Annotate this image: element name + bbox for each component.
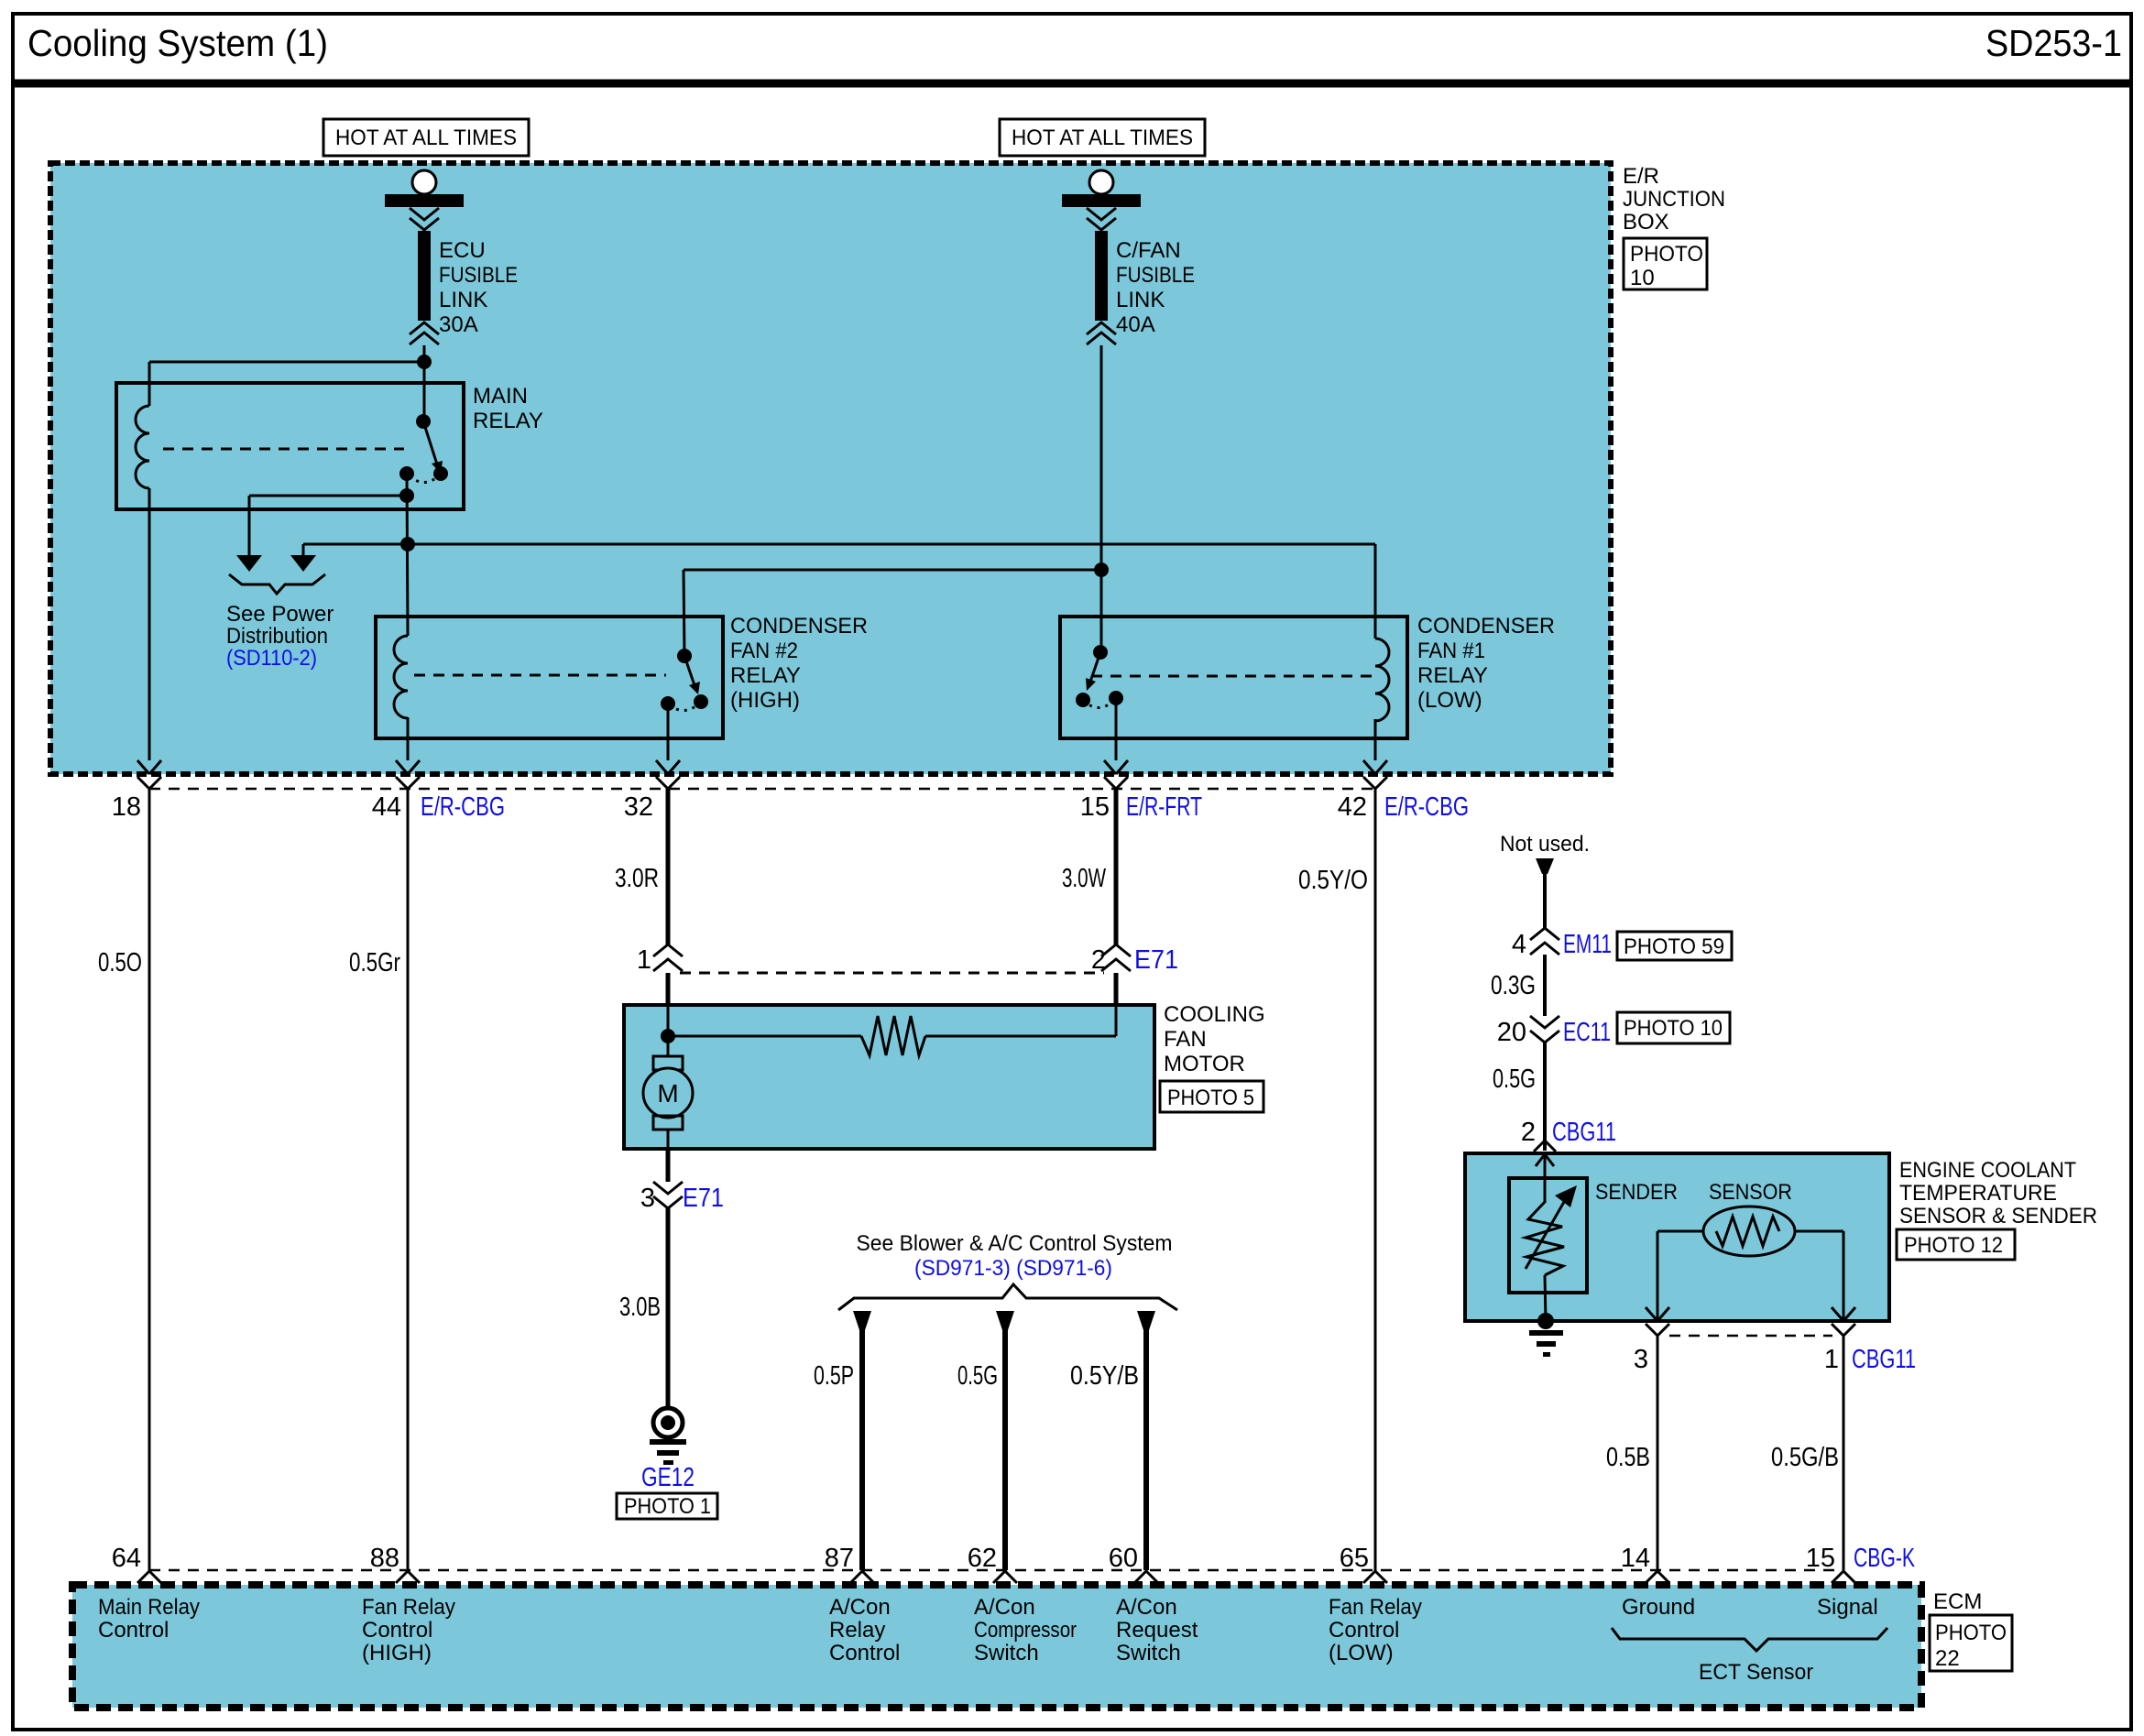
svg-text:60: 60	[1109, 1544, 1138, 1573]
svg-text:ECU: ECU	[439, 238, 486, 263]
svg-text:1: 1	[1824, 1345, 1839, 1374]
svg-text:CBG11: CBG11	[1852, 1345, 1916, 1374]
svg-text:0.5Y/B: 0.5Y/B	[1070, 1361, 1139, 1391]
svg-text:ENGINE COOLANT: ENGINE COOLANT	[1899, 1158, 2076, 1183]
svg-text:EC11: EC11	[1563, 1018, 1611, 1047]
svg-text:0.5G/B: 0.5G/B	[1771, 1443, 1839, 1472]
svg-text:E71: E71	[1134, 945, 1178, 975]
svg-text:0.5Gr: 0.5Gr	[349, 948, 400, 977]
svg-text:Fan Relay: Fan Relay	[1329, 1595, 1422, 1620]
svg-text:Request: Request	[1116, 1618, 1198, 1643]
svg-text:FAN: FAN	[1164, 1027, 1207, 1052]
svg-text:PHOTO 12: PHOTO 12	[1904, 1233, 2003, 1258]
svg-text:Compressor: Compressor	[974, 1618, 1077, 1643]
svg-text:0.5G: 0.5G	[957, 1361, 998, 1391]
svg-text:Cooling System (1): Cooling System (1)	[27, 22, 328, 64]
svg-text:C/FAN: C/FAN	[1116, 238, 1181, 263]
svg-text:15: 15	[1080, 792, 1110, 822]
svg-text:EM11: EM11	[1563, 930, 1612, 959]
svg-text:0.5B: 0.5B	[1606, 1443, 1650, 1472]
svg-text:0.3G: 0.3G	[1491, 971, 1536, 1000]
svg-text:See Power: See Power	[226, 602, 334, 627]
svg-text:Signal: Signal	[1817, 1595, 1878, 1620]
svg-text:3: 3	[1634, 1345, 1648, 1374]
svg-text:CONDENSER: CONDENSER	[1417, 614, 1555, 639]
svg-text:A/Con: A/Con	[974, 1595, 1035, 1620]
svg-text:A/Con: A/Con	[829, 1595, 891, 1620]
svg-text:0.5Y/O: 0.5Y/O	[1298, 866, 1368, 895]
svg-text:Distribution: Distribution	[226, 624, 328, 649]
svg-text:(LOW): (LOW)	[1417, 688, 1482, 713]
svg-text:M: M	[657, 1079, 678, 1108]
svg-text:TEMPERATURE: TEMPERATURE	[1899, 1181, 2057, 1206]
svg-text:3.0R: 3.0R	[615, 864, 659, 893]
svg-text:Not used.: Not used.	[1500, 832, 1590, 857]
svg-text:HOT AT ALL TIMES: HOT AT ALL TIMES	[1012, 126, 1193, 150]
svg-text:0.5P: 0.5P	[814, 1361, 854, 1391]
svg-text:1: 1	[637, 945, 651, 975]
svg-text:ECM: ECM	[1933, 1589, 1982, 1614]
svg-text:A/Con: A/Con	[1116, 1595, 1177, 1620]
svg-text:E71: E71	[683, 1184, 724, 1213]
svg-text:HOT AT ALL TIMES: HOT AT ALL TIMES	[335, 126, 517, 150]
svg-text:65: 65	[1340, 1544, 1369, 1573]
svg-text:LINK: LINK	[439, 288, 487, 312]
svg-text:30A: 30A	[439, 312, 478, 337]
svg-text:E/R-CBG: E/R-CBG	[421, 792, 505, 822]
svg-text:(HIGH): (HIGH)	[730, 688, 800, 713]
svg-text:Ground: Ground	[1622, 1595, 1695, 1620]
svg-text:SD253-1: SD253-1	[1985, 22, 2122, 64]
svg-text:32: 32	[624, 792, 653, 822]
svg-text:FAN #2: FAN #2	[730, 639, 798, 663]
svg-text:20: 20	[1497, 1018, 1526, 1047]
svg-text:3: 3	[640, 1184, 655, 1213]
svg-text:62: 62	[968, 1544, 997, 1573]
svg-text:PHOTO: PHOTO	[1935, 1621, 2007, 1645]
svg-text:0.5G: 0.5G	[1493, 1065, 1536, 1094]
svg-text:ECT Sensor: ECT Sensor	[1699, 1660, 1813, 1685]
svg-text:(LOW): (LOW)	[1329, 1641, 1394, 1665]
svg-text:See Blower & A/C Control Syste: See Blower & A/C Control System	[857, 1231, 1173, 1256]
svg-text:18: 18	[112, 792, 141, 822]
svg-text:(SD110-2): (SD110-2)	[226, 646, 317, 671]
svg-text:MOTOR: MOTOR	[1164, 1052, 1245, 1076]
svg-text:PHOTO: PHOTO	[1630, 242, 1703, 267]
svg-text:CONDENSER: CONDENSER	[730, 614, 868, 639]
svg-text:E/R-FRT: E/R-FRT	[1126, 792, 1202, 822]
svg-text:COOLING: COOLING	[1164, 1002, 1265, 1027]
svg-text:2: 2	[1091, 945, 1106, 975]
svg-text:42: 42	[1338, 792, 1367, 822]
svg-text:Control: Control	[98, 1618, 169, 1643]
svg-text:FAN #1: FAN #1	[1417, 639, 1485, 663]
svg-text:15: 15	[1806, 1544, 1835, 1573]
svg-text:LINK: LINK	[1116, 288, 1165, 312]
svg-text:PHOTO 1: PHOTO 1	[624, 1494, 711, 1519]
svg-text:44: 44	[372, 792, 401, 822]
svg-text:3.0B: 3.0B	[619, 1293, 661, 1322]
svg-text:Control: Control	[362, 1618, 432, 1643]
svg-text:64: 64	[112, 1544, 141, 1573]
svg-text:RELAY: RELAY	[730, 663, 801, 688]
svg-text:4: 4	[1512, 930, 1526, 959]
svg-text:E/R-CBG: E/R-CBG	[1384, 792, 1469, 822]
svg-text:87: 87	[825, 1544, 854, 1573]
svg-text:SENSOR: SENSOR	[1709, 1180, 1792, 1205]
svg-text:CBG11: CBG11	[1552, 1118, 1616, 1147]
svg-text:JUNCTION: JUNCTION	[1623, 187, 1725, 212]
svg-text:(SD971-3) (SD971-6): (SD971-3) (SD971-6)	[914, 1256, 1112, 1281]
svg-text:2: 2	[1521, 1118, 1536, 1147]
svg-text:Control: Control	[1329, 1618, 1399, 1643]
svg-text:40A: 40A	[1116, 312, 1155, 337]
svg-text:CBG-K: CBG-K	[1854, 1544, 1915, 1573]
svg-text:PHOTO 10: PHOTO 10	[1624, 1016, 1723, 1041]
svg-text:BOX: BOX	[1623, 210, 1669, 235]
svg-text:0.5O: 0.5O	[98, 948, 142, 977]
svg-text:Relay: Relay	[829, 1618, 885, 1643]
svg-text:Fan Relay: Fan Relay	[362, 1595, 455, 1620]
svg-text:Main Relay: Main Relay	[98, 1595, 200, 1620]
svg-text:FUSIBLE: FUSIBLE	[439, 263, 518, 288]
svg-text:88: 88	[370, 1544, 399, 1573]
svg-text:(HIGH): (HIGH)	[362, 1641, 432, 1665]
svg-text:SENSOR & SENDER: SENSOR & SENDER	[1899, 1204, 2097, 1228]
svg-text:SENDER: SENDER	[1595, 1180, 1678, 1205]
svg-text:Switch: Switch	[1116, 1641, 1181, 1665]
svg-text:PHOTO 5: PHOTO 5	[1167, 1086, 1254, 1110]
svg-text:10: 10	[1630, 266, 1655, 290]
svg-text:3.0W: 3.0W	[1062, 864, 1106, 893]
svg-text:RELAY: RELAY	[473, 409, 543, 433]
svg-text:14: 14	[1621, 1544, 1650, 1573]
svg-text:GE12: GE12	[641, 1463, 695, 1492]
svg-text:22: 22	[1935, 1646, 1960, 1671]
svg-text:MAIN: MAIN	[473, 384, 528, 409]
svg-text:E/R: E/R	[1623, 164, 1659, 189]
svg-text:FUSIBLE: FUSIBLE	[1116, 263, 1195, 288]
svg-text:PHOTO 59: PHOTO 59	[1624, 934, 1724, 959]
svg-text:RELAY: RELAY	[1417, 663, 1488, 688]
svg-text:Control: Control	[829, 1641, 900, 1665]
svg-text:Switch: Switch	[974, 1641, 1039, 1665]
